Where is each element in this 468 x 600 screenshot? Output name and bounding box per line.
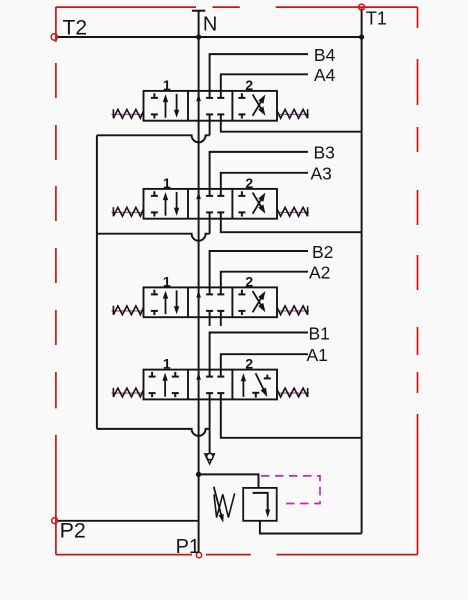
spring (right centering spring) bbox=[278, 113, 310, 115]
svg-text:T2: T2 bbox=[63, 16, 88, 39]
wire: work port line B1 bbox=[210, 333, 308, 377]
wire: work port line A4 bbox=[221, 74, 308, 98]
spring (left centering spring) bbox=[112, 392, 144, 394]
wire: T2-T1 top tank line bbox=[57, 36, 361, 38]
svg-text:1: 1 bbox=[163, 273, 171, 289]
svg-text:2: 2 bbox=[245, 77, 253, 93]
wire: parallel feed tap below valve V4 (hops over N line) bbox=[97, 135, 210, 142]
svg-text:B4: B4 bbox=[314, 45, 336, 65]
spring (left centering spring) bbox=[112, 211, 144, 213]
svg-text:1: 1 bbox=[163, 356, 171, 372]
wire: P2 inlet line bbox=[58, 520, 199, 522]
spring (left centering spring) bbox=[112, 113, 144, 115]
svg-text:A3: A3 bbox=[311, 164, 332, 184]
wire: work port line A1 bbox=[221, 354, 308, 376]
valve V3 (section 3, 3-position 6-way spool) bbox=[144, 189, 278, 219]
spring (right centering spring) bbox=[278, 310, 310, 312]
svg-text:B2: B2 bbox=[312, 242, 333, 262]
svg-text:1: 1 bbox=[163, 175, 171, 191]
svg-text:P1: P1 bbox=[176, 536, 200, 558]
valve V1 (section 1, single-acting spool) bbox=[144, 370, 278, 400]
svg-text:A1: A1 bbox=[307, 345, 328, 365]
node N plug (closed carry-over stub cap) bbox=[192, 10, 205, 12]
wire: neutral carry-over line N (vertical through all sections) bbox=[198, 11, 200, 553]
wire: valve V2 blocked bottom stubs bbox=[209, 311, 211, 326]
wire: valve V3 tank tap to T1 bus bbox=[221, 212, 362, 232]
svg-text:B3: B3 bbox=[314, 143, 335, 163]
relief valve pilot line (magenta dashed) bbox=[261, 476, 320, 504]
svg-text:2: 2 bbox=[245, 356, 253, 372]
junction: T1 bus / top tank line bbox=[359, 34, 364, 39]
port T1 (boundary connection) bbox=[359, 4, 365, 10]
wire: valve V1 tank tap to T1 bus bbox=[221, 393, 362, 438]
wire: valve V4 tank tap to T1 bus bbox=[221, 114, 362, 131]
relief valve adjustable spring bbox=[214, 493, 235, 517]
spring (right centering spring) bbox=[278, 211, 310, 213]
port P2 (boundary connection) bbox=[52, 518, 58, 524]
wire: valve V4 feed-port drop bbox=[209, 114, 211, 135]
wire: relief valve outlet to T1 bus bbox=[260, 521, 362, 534]
wire: work port line B4 bbox=[210, 54, 308, 98]
wire: parallel feed tap below valve V3 (hops over N line) bbox=[97, 234, 210, 241]
wire: work port line B3 bbox=[210, 152, 308, 196]
valve V2 (section 2, 3-position 6-way spool) bbox=[144, 287, 278, 317]
wire: parallel feed bus (left vertical) bbox=[96, 135, 98, 429]
wire: work port line A2 bbox=[221, 272, 308, 295]
svg-text:2: 2 bbox=[245, 273, 253, 289]
port P1 (boundary connection) bbox=[196, 552, 201, 557]
svg-text:B1: B1 bbox=[309, 323, 330, 343]
wire: valve V1 feed-port drop bbox=[209, 393, 211, 429]
svg-text:A4: A4 bbox=[314, 65, 336, 85]
junction: N line / top tank line bbox=[196, 34, 201, 39]
junction: relief-valve branch on P line bbox=[196, 472, 201, 477]
wire: work port line A3 bbox=[221, 173, 308, 196]
svg-text:P2: P2 bbox=[60, 519, 86, 543]
spring (left centering spring) bbox=[112, 310, 144, 312]
valve V4 (section 4, 3-position 6-way spool) bbox=[144, 91, 278, 121]
svg-text:N: N bbox=[203, 14, 217, 36]
wire: T1 tank return bus (right vertical) bbox=[361, 8, 363, 533]
svg-text:A2: A2 bbox=[309, 263, 330, 283]
port T2 (boundary connection) bbox=[51, 34, 57, 40]
carry-over discharge arrow (open) into P gallery bbox=[209, 429, 211, 454]
enclosure border (valve block boundary, red dashed) bbox=[56, 7, 418, 555]
relief valve RV1 (pilot-operated main relief) bbox=[243, 488, 277, 521]
wire: work port line B2 bbox=[210, 251, 308, 294]
wire: relief valve inlet branch bbox=[199, 474, 259, 488]
svg-text:T1: T1 bbox=[366, 9, 387, 29]
wire: parallel feed tap below valve V1 (hops over N line) bbox=[97, 429, 210, 436]
wire: valve V3 feed-port drop bbox=[209, 212, 211, 233]
spring (right centering spring) bbox=[278, 392, 310, 394]
svg-text:1: 1 bbox=[163, 77, 171, 93]
svg-text:2: 2 bbox=[245, 175, 253, 191]
